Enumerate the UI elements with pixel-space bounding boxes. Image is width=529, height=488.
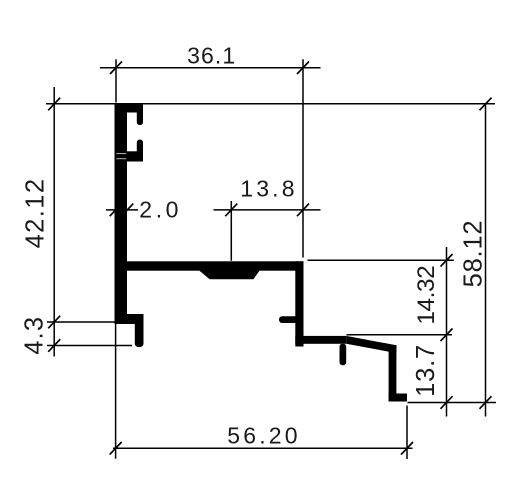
profile bottom-right wall <box>389 345 397 401</box>
extension line right of 56.20 <box>406 406 408 460</box>
profile beam screw-boss trapezoid <box>199 271 260 280</box>
dim line 2.0 <box>106 209 138 211</box>
tick 58.12 bottom <box>480 396 492 409</box>
svg-text:14.32: 14.32 <box>413 266 440 325</box>
extension line foot bottom right <box>408 402 497 404</box>
top datum extension line <box>46 103 495 105</box>
extension line foot bottom left <box>47 321 115 323</box>
svg-text:42.12: 42.12 <box>22 178 50 249</box>
tick 42.12 bottom <box>48 316 60 329</box>
tick 2.0 left <box>110 204 122 217</box>
svg-text:13.8: 13.8 <box>240 175 298 201</box>
tick 36.1 left <box>110 61 122 74</box>
extension line beam top right <box>308 259 454 261</box>
extension line leg tip left <box>47 345 132 347</box>
svg-text:2.0: 2.0 <box>139 197 182 223</box>
profile main left wall <box>115 104 128 315</box>
profile left foot leg <box>135 314 144 347</box>
profile middle horizontal beam <box>115 261 304 270</box>
profile diagonal web <box>346 336 396 353</box>
profile top cap <box>115 104 144 113</box>
svg-text:58.12: 58.12 <box>460 220 488 288</box>
tick 13.7 bottom <box>441 396 453 409</box>
tick 56.20 left <box>110 442 122 455</box>
tick 2.0 right <box>121 204 133 217</box>
tick 36.1 right <box>297 61 309 74</box>
extension line ledge right <box>347 334 453 336</box>
tick 56.20 right <box>401 442 413 455</box>
profile top groove bottom bar <box>115 151 144 161</box>
profile bottom ledge <box>295 336 346 344</box>
dim line 58.12 <box>485 104 487 417</box>
extension line left of 56.20 <box>115 324 117 459</box>
profile right-wall left hook fin <box>279 316 299 323</box>
dim line 42.12 and 4.3 <box>53 87 55 357</box>
dim line 36.1 <box>100 67 321 69</box>
profile ledge hanging stub <box>340 344 347 366</box>
profile left foot <box>115 314 144 324</box>
tick 14.32 top <box>441 254 453 267</box>
extension line right of 36.1 and 13.8 <box>302 59 304 257</box>
svg-text:36.1: 36.1 <box>187 43 236 69</box>
extension line left of 36.1 <box>115 59 117 102</box>
profile top groove upper tooth <box>137 104 143 126</box>
tick 13.8 left <box>225 204 237 217</box>
dim line 13.8 <box>214 209 321 211</box>
profile right wall <box>295 261 303 346</box>
svg-text:13.7: 13.7 <box>412 344 440 397</box>
svg-text:56.20: 56.20 <box>227 423 301 449</box>
extension line left of 13.8 <box>230 201 232 261</box>
dim line 56.20 <box>113 447 413 449</box>
tick 14.32 bottom <box>441 329 453 342</box>
profile top groove lower tooth <box>137 140 143 156</box>
tick 42.12 top <box>48 98 60 111</box>
svg-text:4.3: 4.3 <box>21 316 49 355</box>
profile bottom-right foot <box>389 394 407 402</box>
profile hairline separations <box>116 154 126 159</box>
dim line 14.32 and 13.7 <box>446 247 448 417</box>
tick 4.3 bottom <box>48 339 60 352</box>
tick 13.8 right <box>297 204 309 217</box>
tick 58.12 top <box>480 98 492 111</box>
